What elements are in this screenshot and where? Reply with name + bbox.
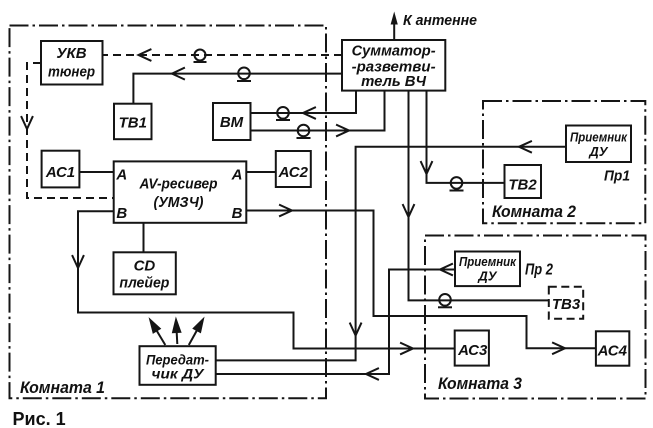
svg-text:ТВ2: ТВ2: [508, 176, 537, 193]
arrow down on TV3 drop: [403, 205, 414, 217]
wire: dashed link tuner to AV-receiver (left side): [27, 63, 114, 198]
antenna arrowhead (filled): [391, 12, 398, 25]
svg-text:УКВ: УКВ: [56, 45, 86, 62]
svg-text:Комната 3: Комната 3: [438, 375, 522, 393]
room 3 border (dash-dot): [425, 236, 646, 399]
wire: summator down to TV3: [409, 91, 549, 301]
arrow left on dashed tuner line: [139, 50, 151, 61]
room 2 border (dash-dot): [483, 101, 645, 223]
svg-text:СD: СD: [134, 258, 156, 275]
IR beam arrow middle of transmitter: [172, 320, 180, 344]
box remote receiver Pr2: [455, 252, 520, 287]
connector on TV2 line: [450, 177, 464, 190]
wire: AV-receiver B right to AC4: [246, 211, 596, 349]
svg-text:тюнер: тюнер: [48, 64, 95, 81]
connector on VM upper line: [276, 107, 290, 120]
svg-text:ТВ3: ТВ3: [552, 296, 581, 313]
arrow down on Pr1 drop: [350, 324, 361, 336]
arrow right on VM lower line: [337, 125, 349, 136]
IR beam arrow left of transmitter: [147, 318, 168, 347]
svg-text:В: В: [232, 205, 243, 222]
svg-text:ВМ: ВМ: [220, 114, 244, 131]
wire: summator to VM (upper): [251, 91, 357, 113]
svg-text:Комната 1: Комната 1: [20, 379, 105, 397]
box IR transmitter: [140, 346, 216, 385]
svg-text:К антенне: К антенне: [403, 12, 477, 29]
svg-text:Комната 2: Комната 2: [492, 203, 576, 221]
svg-text:AV-ресивер: AV-ресивер: [139, 175, 218, 192]
svg-text:АС2: АС2: [278, 164, 309, 181]
wire: receiver Pr2 to IR transmitter: [216, 270, 455, 375]
IR beam arrow right of transmitter: [186, 318, 206, 347]
svg-text:АС3: АС3: [457, 342, 488, 359]
svg-text:Приемник: Приемник: [570, 130, 628, 145]
svg-text:тель ВЧ: тель ВЧ: [361, 74, 427, 90]
arrow left on VM upper line: [303, 108, 315, 119]
arrow down on B-left drop: [73, 256, 84, 268]
arrow left on TV1 line: [172, 68, 184, 79]
box TV2: [505, 165, 542, 198]
arrow left on Pr2 bottom line: [366, 369, 378, 380]
connector on TV3 line: [438, 294, 452, 307]
label Pr1 box: [570, 130, 628, 160]
box AV-receiver: [114, 161, 247, 222]
wire: receiver Pr1 to IR transmitter: [216, 147, 566, 361]
box CD player: [114, 252, 176, 294]
wire: AV-receiver B left to AC3: [78, 211, 455, 348]
box AC2: [276, 151, 311, 187]
component boxes: [41, 40, 631, 385]
wire: receiver to AC2: [246, 171, 275, 173]
label IR transmitter: [146, 351, 209, 381]
svg-text:Приемник: Приемник: [459, 254, 517, 269]
box TV1: [114, 104, 152, 140]
label Pr2 box: [459, 254, 517, 284]
box remote receiver Pr1: [566, 126, 631, 163]
svg-text:Пр 2: Пр 2: [525, 262, 553, 279]
svg-text:В: В: [116, 205, 127, 222]
label summator: [352, 44, 436, 90]
wire: VM to summator (lower): [251, 91, 385, 131]
arrow down on tuner-receiver dashed link: [22, 117, 33, 129]
connector on TV1 line: [237, 68, 251, 82]
wire: receiver to CD player: [143, 223, 145, 253]
arrowheads (open chevrons): [22, 50, 566, 380]
arrow right into AC3: [401, 343, 413, 354]
box TV3 (dashed): [549, 287, 583, 319]
connector on dashed tuner line: [194, 50, 207, 63]
svg-text:ТВ1: ТВ1: [119, 115, 147, 132]
arrow down on TV2 drop: [421, 162, 432, 174]
wire: summator down to TV2: [427, 91, 505, 183]
box AC1: [42, 151, 80, 188]
wire: AC1 to receiver: [79, 171, 113, 173]
svg-text:АС1: АС1: [45, 164, 75, 181]
svg-text:плейер: плейер: [119, 275, 169, 292]
box AC4: [596, 331, 629, 365]
box VHF tuner: [41, 41, 103, 85]
svg-text:Рис. 1: Рис. 1: [13, 409, 66, 428]
box RF summator-splitter: [342, 40, 445, 91]
svg-text:ДУ: ДУ: [588, 144, 608, 159]
svg-text:Сумматор-: Сумматор-: [352, 44, 436, 60]
room 1 border (dash-dot): [10, 26, 327, 399]
wire: dashed RF line summator to VHF tuner: [103, 54, 343, 56]
svg-text:А: А: [115, 167, 127, 184]
arrow left on Pr2 line: [440, 264, 452, 275]
svg-text:АС4: АС4: [597, 343, 628, 360]
connector circles on wires: [194, 50, 464, 308]
wire: antenna lead from summator top: [393, 22, 395, 40]
arrow right into AC4: [553, 343, 565, 354]
arrow left on Pr1 line: [519, 141, 531, 152]
arrow right on B-right line: [280, 205, 292, 216]
box AC3: [455, 331, 489, 366]
svg-text:ДУ: ДУ: [477, 269, 497, 284]
svg-text:Пр1: Пр1: [604, 167, 630, 184]
connector on VM lower line: [297, 125, 311, 138]
svg-text:(УМЗЧ): (УМЗЧ): [154, 194, 204, 211]
svg-text:-разветви-: -разветви-: [352, 59, 436, 75]
svg-text:А: А: [231, 167, 243, 184]
wire: summator to TV1: [133, 74, 342, 104]
svg-text:чик ДУ: чик ДУ: [152, 366, 206, 382]
box VM: [213, 103, 251, 140]
